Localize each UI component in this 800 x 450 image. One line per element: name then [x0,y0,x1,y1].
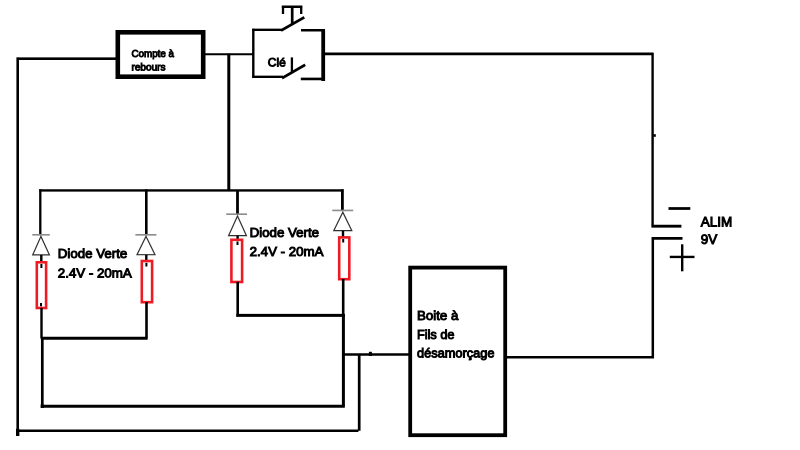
wire: junction drop from timer wire to LED bus (node A) [227,53,230,191]
R1 lead tick bottom [40,303,42,306]
wire: branch 1 drop [39,189,41,235]
wire: timer output to key switch [206,53,255,55]
defuse box: Boite à fils de désamorçage [410,268,505,436]
wire: LED bus horizontal [39,189,343,191]
junction dot at bottom-left corner [16,429,19,436]
LED branch 2 [135,189,156,338]
svg-text:Diode Verte: Diode Verte [250,225,319,240]
wire: battery negative rail down [652,237,655,357]
resistor R4 (red) [339,237,349,279]
LED D3 triangle [229,216,247,236]
S1 lower blade [282,65,305,78]
svg-text:Boite à: Boite à [417,308,459,323]
svg-text:Compte à: Compte à [132,48,175,60]
S1 key actuator T bar [282,6,303,9]
svg-text:2.4V - 20mA: 2.4V - 20mA [250,244,324,259]
wire: bottom return horizontal [16,429,358,432]
svg-text:9V: 9V [701,232,718,247]
LED branch 3 [226,190,247,317]
svg-text:ALIM: ALIM [701,215,733,230]
wire: riser x358 from defuse-box input down to bottom return [358,355,361,431]
wire: lower horizontal y406 [41,405,344,408]
wire: branch 2 drop [145,189,148,235]
BT1 plus sign vertical [681,244,683,271]
wire: battery to defuse box (bottom right run) [506,356,654,359]
LED D4 cathode bar [332,209,353,211]
svg-text:Fils de: Fils de [417,327,455,342]
S1 lower fixed contact post [291,57,293,73]
S1 lower contact right [301,78,325,81]
wire: D1 anode stub [40,255,42,263]
LED D2 cathode bar [135,234,156,236]
wire: branch 4 lower [342,279,345,316]
junction nub on battery rail [654,134,656,137]
LED D1 cathode bar [32,234,50,236]
wire: battery top rail vertical [651,53,653,226]
LED branch 4 [332,189,353,315]
S1 key actuator right leg [300,6,302,14]
junction tick on defuse input wire [369,352,372,356]
S1 upper contact left [252,29,282,31]
BT1 bottom plate [652,237,683,240]
battery BT1: ALIM 9V [651,209,694,272]
resistor R3 (red) [231,240,242,282]
resistor R1 (red) [37,262,46,308]
wire: branch 1 lower [40,308,42,339]
wire: D4 anode stub [342,231,344,238]
R2 lead tick top [145,263,147,267]
S1 upper blade [281,17,304,30]
S1 upper contact right [301,29,325,32]
BT1 negative short plate (floating) [669,207,691,210]
wire: branch 2 lower [145,302,148,338]
wire: left rail vertical (timer input down to bottom return) [16,57,19,436]
wire: left feed to timer (top-left horizontal) [17,57,116,60]
LED D2 triangle [137,236,155,254]
S1 key actuator left leg [282,6,284,14]
wire: LED net to defuse box input [344,353,411,356]
BT1 plus sign horizontal [670,256,695,258]
S1 key actuator stem [291,7,294,25]
wire: branch 3 lower [236,282,239,317]
svg-text:Clé: Clé [268,56,286,70]
LED branch 1 [32,189,50,338]
wire: D3 anode stub [236,236,238,240]
switch S1: key switch "Clé" [252,6,325,81]
LED D1 triangle [33,236,50,255]
BT1 top plate [651,225,681,228]
R3 lead tick top [237,242,239,246]
S1 right rail [321,30,325,81]
wire: D2 anode stub [145,255,147,261]
wire: branch 4 drop [341,189,344,210]
svg-text:rebours: rebours [132,62,166,74]
wire: left pair riser down to y406 [41,338,44,406]
wire: right pair bottom join [236,314,345,317]
junction dot at (42,406) [41,405,44,409]
timer U1: box "Compte a rebours" [118,32,203,76]
svg-text:Diode Verte: Diode Verte [58,246,127,261]
R4 lead tick top [342,239,344,243]
wire: key switch to battery (top run) [325,53,654,56]
S1 left rail [252,29,254,78]
svg-text:désamorçage: désamorçage [417,345,495,360]
LED D3 cathode bar [226,213,247,215]
wire: branch 3 drop [236,190,239,214]
wire: right pair riser x343 (join down to y406) [342,314,345,406]
S1 lower contact left [252,76,283,78]
R1 lead tick top [40,264,42,268]
svg-text:2.4V - 20mA: 2.4V - 20mA [58,266,132,281]
wire: left pair bottom join [41,337,148,340]
resistor R2 (red) [142,261,152,302]
LED D4 triangle [334,212,352,230]
